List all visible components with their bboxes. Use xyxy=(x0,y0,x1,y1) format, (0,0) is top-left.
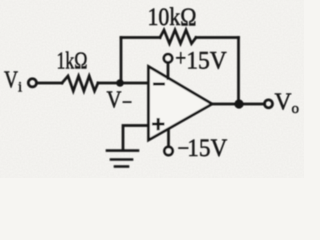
svg-text:15V: 15V xyxy=(187,133,228,162)
svg-text:1kΩ: 1kΩ xyxy=(57,49,88,75)
label Vo xyxy=(275,90,300,118)
svg-text:i: i xyxy=(18,80,22,96)
input terminal circle Vi xyxy=(28,79,36,87)
svg-text:10kΩ: 10kΩ xyxy=(148,4,197,31)
svg-text:V: V xyxy=(4,68,19,94)
label Vi xyxy=(4,68,22,96)
wire non-inverting input xyxy=(123,126,148,151)
svg-text:15V: 15V xyxy=(186,45,227,74)
label -15V xyxy=(177,133,228,162)
svg-text:o: o xyxy=(292,101,300,117)
wire op-amp output xyxy=(212,103,265,106)
ground symbol xyxy=(107,149,138,152)
wire feedback down to output node xyxy=(237,38,240,105)
label +15V xyxy=(175,45,227,74)
label 10kΩ xyxy=(148,4,197,31)
label V- xyxy=(107,88,133,117)
svg-text:+: + xyxy=(175,46,186,72)
op-amp U1 triangle xyxy=(149,67,213,141)
-15V terminal circle xyxy=(164,147,172,155)
output node junction dot xyxy=(234,99,243,108)
label 1kΩ xyxy=(57,49,88,75)
output terminal circle Vo xyxy=(265,100,273,108)
wire feedback top left xyxy=(121,36,160,39)
resistor R1 1kΩ zigzag xyxy=(62,76,98,91)
node V- junction dot xyxy=(116,79,124,87)
+15V terminal circle xyxy=(164,54,172,62)
wire feedback riser xyxy=(120,38,123,84)
wire input to R1 xyxy=(38,82,62,85)
wire -15V stem xyxy=(167,130,170,147)
wire +15V stem xyxy=(167,63,170,79)
op-amp non-inverting input plus sign xyxy=(154,120,164,129)
resistor R2 10kΩ zigzag xyxy=(160,30,196,44)
svg-text:−: − xyxy=(122,90,133,116)
svg-text:V: V xyxy=(275,90,293,116)
wire R1 to op-amp inverting input xyxy=(98,82,148,85)
op-amp inverting input minus sign xyxy=(155,83,164,86)
wire feedback top right xyxy=(196,36,239,39)
svg-text:V: V xyxy=(107,88,123,114)
